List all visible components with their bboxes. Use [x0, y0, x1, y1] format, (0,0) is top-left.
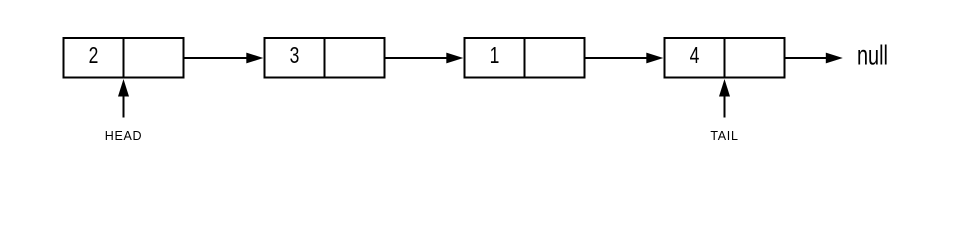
svg-text:2: 2 [89, 44, 99, 69]
node 3 divider [524, 38, 526, 78]
arrowhead node3 to node4 [646, 53, 663, 64]
wire node4 to null [785, 57, 826, 59]
node 4 box [665, 38, 785, 78]
wire node3 to node4 [585, 57, 647, 59]
node 3 box [465, 38, 585, 78]
wire node2 to node3 [385, 57, 447, 59]
arrowhead node2 to node3 [446, 53, 463, 64]
svg-text:HEAD: HEAD [105, 129, 143, 143]
node 2 box [265, 38, 385, 78]
node 2 divider [324, 38, 326, 78]
node 1 divider [123, 38, 125, 78]
node 4 divider [724, 38, 726, 78]
svg-text:3: 3 [290, 44, 300, 69]
arrowhead node4 to null [826, 53, 843, 64]
node 1 box [64, 38, 184, 78]
svg-text:TAIL: TAIL [710, 129, 738, 143]
TAIL pointer wire [724, 96, 726, 118]
svg-text:4: 4 [690, 44, 700, 69]
svg-text:1: 1 [490, 44, 500, 69]
svg-text:null: null [857, 40, 888, 71]
HEAD pointer wire [123, 96, 125, 118]
HEAD pointer arrowhead [118, 79, 129, 97]
wire node1 to node2 [184, 57, 247, 59]
arrowhead node1 to node2 [246, 53, 263, 64]
TAIL pointer arrowhead [719, 79, 730, 97]
